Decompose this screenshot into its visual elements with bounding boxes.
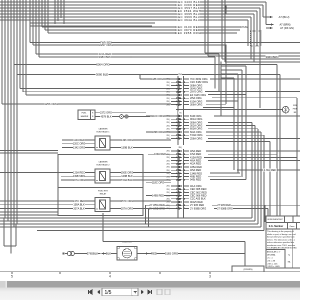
svg-text:149B MRG: 149B MRG bbox=[73, 174, 86, 178]
title block tolerance table bbox=[266, 229, 293, 268]
wire 2Y W5A RED feed bbox=[146, 203, 172, 224]
svg-text:207A ORG: 207A ORG bbox=[121, 206, 133, 210]
svg-text:FUEL: FUEL bbox=[82, 113, 87, 115]
wire 109A RED feed bbox=[148, 152, 171, 156]
wire BLK segment bbox=[104, 252, 117, 256]
svg-text:thread otherwise specified to: thread otherwise specified to in bbox=[267, 236, 295, 239]
wire labels CEC group 1 bbox=[175, 0, 201, 22]
wire risers mid right bbox=[220, 61, 222, 116]
svg-text:110C ORG: 110C ORG bbox=[152, 114, 164, 118]
svg-text:DECIMAL: DECIMAL bbox=[267, 253, 277, 256]
svg-text:(3959RN): (3959RN) bbox=[243, 269, 252, 271]
relay CARRIER RUN RELAY 2 body bbox=[95, 169, 110, 183]
toolbar page number input bbox=[102, 288, 138, 296]
toolbar first-page button bbox=[88, 290, 92, 294]
svg-text:109A RED: 109A RED bbox=[154, 152, 166, 156]
title block header text bbox=[267, 219, 283, 221]
svg-text:2B(: 2B( bbox=[166, 170, 169, 172]
svg-text:3W6: 3W6 bbox=[293, 105, 297, 107]
relay CARRIER RUN RELAY 2 title bbox=[97, 160, 111, 166]
svg-text:2297 ORG: 2297 ORG bbox=[99, 43, 112, 47]
svg-text:RED: RED bbox=[151, 252, 157, 256]
wire labels CEC group 2 bbox=[175, 25, 201, 35]
svg-text:5064 ORG: 5064 ORG bbox=[96, 63, 109, 67]
svg-text:3: 3 bbox=[209, 275, 211, 279]
svg-text:.X ± .1: .X ± .1 bbox=[267, 257, 273, 259]
svg-text:27(: 27( bbox=[179, 113, 182, 115]
wire RED segment bbox=[137, 252, 164, 256]
relay CARRIER RUN RELAY 1 title bbox=[97, 127, 111, 133]
svg-text:1188 ORG: 1188 ORG bbox=[151, 77, 163, 81]
svg-text:BLK: BLK bbox=[106, 252, 111, 256]
svg-text:5165 ORG: 5165 ORG bbox=[165, 252, 178, 256]
svg-text:2B(: 2B( bbox=[166, 167, 169, 169]
svg-text:306A ORG: 306A ORG bbox=[190, 103, 202, 107]
svg-text:2B(: 2B( bbox=[166, 199, 169, 201]
connector CN2 body bbox=[178, 149, 184, 218]
svg-text:1342 ORG: 1342 ORG bbox=[73, 145, 85, 149]
wire bus horizontal lines lower left bbox=[0, 218, 261, 227]
svg-text:2B(: 2B( bbox=[166, 186, 169, 188]
wire 110C ORG feed bbox=[146, 114, 171, 118]
wire stubs left of enclosure bbox=[0, 212, 58, 215]
svg-text:T20A BGK: T20A BGK bbox=[121, 178, 133, 182]
svg-text:2B(: 2B( bbox=[166, 157, 169, 159]
svg-text:membrane case 7'001, membra: membrane case 7'001, membra bbox=[267, 245, 296, 247]
relay 1 right pin wires bbox=[110, 138, 171, 150]
svg-text:2B(: 2B( bbox=[166, 82, 169, 84]
relay FUEL HTR RELAY title bbox=[98, 190, 108, 195]
svg-text:2B(: 2B( bbox=[178, 147, 181, 149]
svg-text:RUN RELAY 2: RUN RELAY 2 bbox=[97, 164, 111, 167]
wire A7 (BRN) with arrow bbox=[266, 2, 291, 26]
svg-text:2B(: 2B( bbox=[166, 88, 169, 90]
connector CH-8A dashed outline bbox=[251, 31, 262, 46]
svg-text:1104 RED: 1104 RED bbox=[73, 138, 85, 142]
svg-text:.XXX ± .005: .XXX ± .005 bbox=[267, 263, 277, 265]
wire 3080 BLE bbox=[17, 73, 280, 77]
ground splice star symbol bbox=[62, 252, 65, 255]
svg-text:Zone: Zone bbox=[290, 226, 296, 228]
svg-text:139B BLK: 139B BLK bbox=[121, 145, 133, 149]
svg-text:2B(: 2B( bbox=[166, 135, 169, 137]
wire return above ground bbox=[103, 213, 245, 254]
svg-text:150E ORG: 150E ORG bbox=[121, 170, 133, 174]
wire bundle: top harness rows CEC group 2 bbox=[42, 27, 243, 33]
svg-text:949( RED: 949( RED bbox=[190, 178, 201, 182]
relay FUEL HTR RELAY body bbox=[95, 198, 110, 212]
svg-text:257C ORG: 257C ORG bbox=[121, 199, 134, 203]
svg-text:A7 (BLU): A7 (BLU) bbox=[279, 15, 290, 19]
svg-text:FUEL HTR: FUEL HTR bbox=[98, 190, 108, 192]
wire 3966 BRN and neighbors to right edge bbox=[205, 0, 300, 62]
svg-text:2B(: 2B( bbox=[166, 173, 169, 175]
wire 5064 ORG bbox=[14, 63, 277, 67]
wire bundle: left vertical drops from top edge bbox=[2, 0, 64, 254]
svg-text:207A ORG: 207A ORG bbox=[73, 178, 85, 182]
connector CN1 body bbox=[178, 76, 184, 145]
svg-text:2B(: 2B( bbox=[166, 129, 169, 131]
connector CH-8A label bbox=[240, 26, 248, 29]
wire A7 (BLU) with arrow bbox=[263, 5, 290, 19]
title block outline bbox=[266, 216, 302, 268]
junction arrow mark top bbox=[225, 5, 227, 14]
wire 3980 BRN bbox=[39, 55, 215, 89]
wire lamp feed with junction bbox=[176, 109, 282, 111]
svg-text:2B(: 2B( bbox=[166, 125, 169, 127]
component FUEL HEATER box bbox=[78, 110, 95, 120]
svg-text:2B(: 2B( bbox=[166, 164, 169, 166]
svg-text:.XX ± .88: .XX ± .88 bbox=[267, 260, 275, 262]
toolbar page layout icons bbox=[157, 289, 170, 294]
svg-text:4 /0A RED: 4 /0A RED bbox=[263, 168, 276, 172]
svg-text:2B(: 2B( bbox=[166, 202, 169, 204]
svg-text:CEC 394A BLU: CEC 394A BLU bbox=[176, 18, 201, 22]
svg-text:138A BLK: 138A BLK bbox=[73, 203, 85, 207]
svg-text:1496 ORG: 1496 ORG bbox=[121, 138, 133, 142]
svg-text:247C RED: 247C RED bbox=[73, 199, 85, 203]
wire 4/3A RED bbox=[36, 52, 219, 91]
svg-text:08 INCHES/2007: 08 INCHES/2007 bbox=[267, 219, 283, 221]
wire feeds into connector CN1 pins bbox=[20, 89, 171, 95]
svg-text:E.G. Number: E.G. Number bbox=[269, 225, 284, 228]
drawing bottom border with zone ticks bbox=[0, 272, 300, 279]
svg-text:2B(: 2B( bbox=[166, 119, 169, 121]
svg-text:2B(: 2B( bbox=[166, 85, 169, 87]
component WEATHER PACK connector box bbox=[117, 247, 137, 261]
connector CN2 pins and wire labels bbox=[166, 149, 207, 210]
wire long vertical right side B bbox=[279, 75, 281, 217]
wire 5765BLK bbox=[75, 252, 105, 256]
svg-text:CARRIER: CARRIER bbox=[98, 127, 108, 130]
svg-text:1/5: 1/5 bbox=[105, 290, 112, 296]
wire staircase upper right corners bbox=[221, 66, 246, 179]
svg-text:inches. The tolerances unless: inches. The tolerances unless s bbox=[267, 239, 295, 242]
viewer toolbar background bbox=[0, 288, 300, 300]
svg-text:2B(: 2B( bbox=[166, 92, 169, 94]
note box 3959RN bbox=[232, 266, 264, 272]
svg-text:CEC 3958 ORG: CEC 3958 ORG bbox=[175, 31, 201, 35]
enclosure box around relay 2 bbox=[0, 151, 143, 188]
wire 4578 BLK with inline connectors bbox=[95, 115, 150, 119]
wire 7WN BDI bbox=[30, 41, 300, 45]
svg-text:5765BLK: 5765BLK bbox=[87, 252, 99, 256]
svg-text:118C OPG: 118C OPG bbox=[152, 181, 164, 185]
svg-text:149B RED: 149B RED bbox=[152, 194, 164, 198]
svg-text:2B(: 2B( bbox=[166, 95, 169, 97]
svg-text:whole or part, of design use a: whole or part, of design use and bbox=[267, 233, 295, 236]
svg-text:.XXXX ± .0005: .XXXX ± .0005 bbox=[267, 266, 280, 268]
svg-text:2B(: 2B( bbox=[166, 151, 169, 153]
svg-text:RUN RELAY 1: RUN RELAY 1 bbox=[97, 130, 111, 133]
svg-text:27 908B ORG: 27 908B ORG bbox=[217, 207, 233, 210]
title block legal paragraph bbox=[267, 230, 297, 250]
lamp indicator symbol bbox=[282, 105, 297, 114]
svg-text:3966 BRN: 3966 BRN bbox=[266, 55, 279, 59]
ground double-ring connector bbox=[65, 251, 74, 255]
relay 3 right pin wires bbox=[110, 199, 171, 210]
wire bundle: CN2 outputs to right bbox=[204, 151, 300, 225]
svg-text:3980 BRN: 3980 BRN bbox=[99, 55, 112, 59]
svg-text:123A REC: 123A REC bbox=[73, 170, 85, 174]
connector CN1 mid separator label bbox=[178, 112, 182, 115]
wire 2Y W5B ORG feed bbox=[149, 206, 172, 227]
toolbar last-page button bbox=[148, 290, 152, 294]
connector CN2 label bbox=[178, 146, 182, 149]
wire bundle: top right vertical harness bbox=[248, 8, 260, 108]
svg-text:2B(: 2B( bbox=[166, 104, 169, 106]
svg-text:2B(: 2B( bbox=[166, 160, 169, 162]
svg-text:HEATER: HEATER bbox=[81, 115, 89, 118]
viewer horizontal scrollbar bbox=[0, 281, 300, 288]
svg-text:207A BLK: 207A BLK bbox=[73, 206, 85, 210]
svg-text:RELAY: RELAY bbox=[100, 193, 107, 196]
wire 1898 ORG feed bbox=[146, 130, 171, 134]
wire A7 (DK GN) with arrow bbox=[266, 26, 294, 30]
connector CN1 pins and wire labels bbox=[166, 77, 208, 140]
wire bundle: top harness horizontal rows CEC group 1 bbox=[0, 2, 266, 26]
svg-text:A7 (BRN): A7 (BRN) bbox=[279, 22, 290, 26]
svg-text:1898 ORG: 1898 ORG bbox=[152, 130, 164, 134]
svg-text:2B(: 2B( bbox=[166, 192, 169, 194]
svg-text:unless otherwise specified dim: unless otherwise specified dim bbox=[267, 241, 294, 244]
svg-text:2B(: 2B( bbox=[166, 176, 169, 178]
toolbar prev-page button bbox=[97, 290, 100, 294]
svg-text:1256 ORG: 1256 ORG bbox=[44, 102, 57, 106]
wire 1256 ORG bbox=[2, 102, 171, 106]
svg-text:Tp: Tp bbox=[288, 255, 290, 257]
svg-text:120C ORG: 120C ORG bbox=[73, 142, 86, 146]
svg-text:This drawing is the property o: This drawing is the property of bbox=[267, 230, 294, 233]
svg-text:PWR: PWR bbox=[293, 109, 298, 111]
wire 118C OPG feed bbox=[146, 181, 171, 185]
wire 2372 ORG bbox=[95, 111, 146, 114]
wire 5165 ORG bbox=[164, 252, 246, 267]
svg-text:4: 4 bbox=[109, 275, 111, 279]
svg-text:3080 BLE: 3080 BLE bbox=[96, 73, 108, 77]
svg-text:5: 5 bbox=[11, 275, 13, 279]
title block E.G. Number row bbox=[269, 223, 297, 230]
svg-text:2372 ORG: 2372 ORG bbox=[100, 112, 112, 115]
svg-text:CARRIER: CARRIER bbox=[98, 160, 108, 163]
relay 2 right pin wires bbox=[110, 170, 171, 182]
svg-text:ANGULAR ± 1°: ANGULAR ± 1° bbox=[267, 251, 281, 254]
wire long vertical right side C bbox=[296, 98, 298, 216]
relay CARRIER RUN RELAY 1 body bbox=[95, 136, 110, 150]
wire 149B RED feed bbox=[146, 194, 171, 198]
svg-text:2B(: 2B( bbox=[166, 189, 169, 191]
wire 4/0A RED bbox=[237, 168, 300, 172]
svg-text:4578 BLK: 4578 BLK bbox=[101, 115, 112, 118]
svg-text:2B(: 2B( bbox=[166, 98, 169, 100]
wire long vertical right side A bbox=[276, 65, 278, 217]
svg-text:2B(: 2B( bbox=[166, 122, 169, 124]
svg-text:CH-8A: CH-8A bbox=[240, 26, 248, 29]
svg-text:149B BLK: 149B BLK bbox=[121, 174, 133, 178]
wire U-turn bottom left bbox=[4, 218, 16, 246]
svg-text:2B(: 2B( bbox=[166, 101, 169, 103]
connector CN1 label bbox=[178, 73, 183, 76]
relay 1 left pin wires bbox=[62, 138, 95, 150]
wire 1188 ORG feed bbox=[140, 75, 171, 81]
wire 2297 ORG bbox=[33, 43, 227, 104]
svg-text:256A ORG: 256A ORG bbox=[190, 136, 202, 140]
relay 3 left pin wires bbox=[0, 199, 95, 210]
enclosure box around fuel heater relay bbox=[58, 188, 143, 216]
wire bundle: CN1 outputs to right bbox=[37, 79, 300, 231]
svg-text:2Y 908B ORG: 2Y 908B ORG bbox=[190, 206, 206, 210]
component WEATHER PACK connector title bbox=[122, 241, 132, 244]
relay 2 left pin wires bbox=[0, 170, 95, 182]
svg-text:A7 (DK GN): A7 (DK GN) bbox=[280, 26, 294, 30]
toolbar next-page button bbox=[141, 290, 144, 294]
